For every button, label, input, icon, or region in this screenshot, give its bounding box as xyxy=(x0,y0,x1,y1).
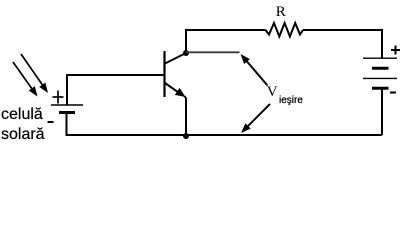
output arrow upper (to collector stub) xyxy=(241,54,268,86)
resistor R zigzag xyxy=(266,23,304,37)
battery B1 plate 4 short xyxy=(372,87,389,90)
output arrow lower (to bottom rail) xyxy=(241,104,270,133)
battery B1 plate 2 short xyxy=(372,67,389,70)
wire: cell top stem up xyxy=(66,75,68,105)
battery B1 plate 3 long xyxy=(363,77,397,79)
transistor Q1 collector diagonal xyxy=(165,53,186,64)
wire: top rail left of resistor xyxy=(185,29,266,31)
solar cell minus sign xyxy=(48,121,54,123)
label V iesire xyxy=(267,84,278,101)
label celula solara xyxy=(1,106,43,124)
solar cell positive long plate xyxy=(51,104,83,106)
junction dot at collector node xyxy=(183,50,189,56)
solar cell plus sign xyxy=(53,91,64,104)
transistor Q1 emitter diagonal with arrow xyxy=(165,83,186,98)
battery minus sign xyxy=(390,92,396,94)
label R xyxy=(276,4,286,21)
battery B1 plate 1 long xyxy=(363,57,397,59)
wire: collector vertical to top rail xyxy=(185,30,187,53)
light ray arrow 1 xyxy=(21,54,48,93)
junction dot at emitter on bottom rail xyxy=(183,133,189,139)
wire: battery bottom stem xyxy=(381,89,383,136)
wire: top rail right of resistor xyxy=(303,30,382,58)
solar cell negative short plate xyxy=(59,111,75,114)
wire: emitter vertical to bottom rail xyxy=(185,98,187,135)
battery plus sign xyxy=(391,46,400,55)
wire: base wire to transistor xyxy=(66,74,164,76)
wire: cell bottom stem xyxy=(67,113,187,136)
wire: collector output stub xyxy=(186,51,240,53)
wire: bottom rail xyxy=(186,134,382,136)
light ray arrow 2 xyxy=(13,62,38,97)
transistor Q1 base bar xyxy=(163,51,165,97)
